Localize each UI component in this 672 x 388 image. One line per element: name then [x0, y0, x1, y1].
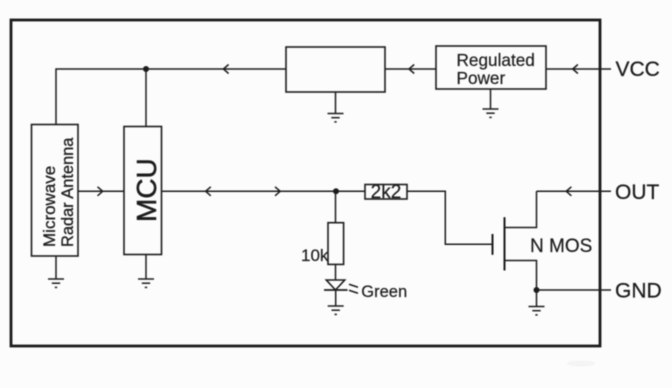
svg-text:Radar Antenna: Radar Antenna [59, 137, 77, 247]
svg-text:MCU: MCU [131, 158, 162, 222]
svg-text:Green: Green [361, 283, 407, 301]
svg-text:10k: 10k [301, 246, 329, 265]
svg-text:N MOS: N MOS [530, 236, 592, 257]
svg-text:2k2: 2k2 [371, 182, 402, 203]
svg-text:Power: Power [457, 68, 506, 88]
svg-text:GND: GND [615, 280, 662, 303]
svg-text:OUT: OUT [615, 181, 660, 204]
svg-text:Microwave: Microwave [40, 166, 59, 247]
svg-text:Regulated: Regulated [457, 50, 535, 70]
svg-text:VCC: VCC [616, 58, 660, 81]
